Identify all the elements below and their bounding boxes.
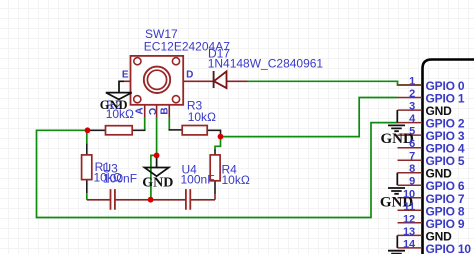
svg-text:1N4148W_C2840961: 1N4148W_C2840961 (208, 57, 324, 71)
encoder corner hole top-right (172, 58, 179, 65)
wire encoder pin B drop (168, 117, 170, 130)
svg-text:GND: GND (142, 176, 173, 191)
svg-text:13: 13 (403, 226, 415, 238)
svg-text:D: D (186, 69, 193, 80)
wire pin B to R3 left pin (169, 129, 183, 131)
encoder pin D stub to diode (183, 80, 213, 82)
encoder shaft inner circle (147, 70, 166, 89)
wire encoder pin A drop (144, 117, 146, 130)
wire junction jog down to R4 (215, 137, 221, 151)
wire R3/R4 junction to connector pin 2 (221, 98, 398, 137)
resistor R1 bottom pin wire (86, 193, 88, 200)
capacitor U4 plates (186, 189, 190, 210)
svg-text:C: C (146, 108, 157, 115)
earth ground symbol at pin 4 (388, 125, 405, 131)
ground bracket pins 3-4 (396, 110, 398, 123)
connector pin lines 1-14 (398, 85, 423, 248)
svg-text:3: 3 (409, 101, 415, 113)
encoder pin E stub (124, 80, 131, 82)
junction dot R2/R1 node (85, 127, 91, 133)
svg-text:E: E (122, 69, 129, 80)
diode anode lead (227, 80, 248, 82)
svg-text:GND: GND (100, 98, 128, 112)
resistor R3 body (182, 126, 207, 135)
svg-text:GPIO 10: GPIO 10 (426, 242, 472, 254)
diode D17 symbol (213, 71, 215, 88)
resistor R1 top pin wire (86, 130, 88, 143)
resistor R1 bottom pin stub (86, 180, 88, 194)
earth ground symbol at pin 9 (388, 188, 405, 194)
svg-text:11: 11 (404, 201, 416, 213)
svg-text:10: 10 (403, 188, 415, 200)
wire R2 right pin to pin A node (132, 129, 145, 131)
connector body (423, 60, 474, 254)
R4 bottom pin stub (214, 181, 216, 194)
svg-text:14: 14 (403, 238, 416, 250)
svg-text:4: 4 (409, 113, 416, 125)
resistor R1 body (82, 155, 92, 180)
junction dot pin C / GND (154, 153, 160, 159)
encoder corner hole top-left (134, 58, 141, 65)
svg-text:10kΩ: 10kΩ (222, 173, 250, 187)
svg-text:5: 5 (409, 126, 415, 138)
capacitor row leads R1-U3-GND-U4-R4 (87, 194, 215, 200)
R4 top pin stub (214, 150, 216, 155)
resistor R4 body (210, 155, 220, 181)
svg-text:1: 1 (409, 76, 415, 88)
svg-text:6: 6 (409, 138, 415, 150)
resistor R2 body (106, 126, 133, 135)
wire diode anode to connector pin 1 (248, 81, 423, 85)
svg-text:9: 9 (409, 176, 415, 188)
encoder corner hole bottom-left (134, 96, 141, 103)
wire encoder pin C drop to GND junction (156, 117, 158, 155)
rotary encoder SW17 body (131, 56, 184, 105)
wire R3 right pin to junction (207, 130, 220, 134)
encoder corner hole bottom-right (172, 96, 179, 103)
junction dot R3/R4 node (218, 134, 224, 140)
wire GND jog down to capacitor row (151, 155, 157, 199)
encoder shaft outer circle (144, 67, 170, 93)
earth ground symbol at pin 14 (388, 251, 405, 254)
svg-text:8: 8 (409, 163, 415, 175)
junction dot capacitor row GND (148, 197, 154, 203)
ground symbol center (encoder pin C) (144, 155, 168, 176)
svg-text:10kΩ: 10kΩ (188, 110, 216, 124)
ground bracket pins 8-9 (396, 173, 398, 186)
svg-text:100nF: 100nF (181, 173, 215, 187)
svg-text:100nF: 100nF (103, 172, 137, 186)
svg-text:A: A (135, 107, 146, 114)
wire net to GPIO2: encoder A bus (left vertical, bottom bus, riser to pin 4) (37, 123, 398, 218)
ground symbol left (encoder pin E) (106, 81, 132, 99)
svg-text:2: 2 (409, 88, 415, 100)
capacitor U3 plates (111, 189, 115, 210)
ground bracket pins 13-14 (396, 235, 398, 248)
resistor R1 top pin stub (86, 143, 88, 155)
svg-text:B: B (160, 107, 171, 114)
encoder bottom pin stubs A C B (145, 105, 170, 118)
wire junction to R2 left pin (88, 129, 106, 131)
svg-text:12: 12 (403, 213, 415, 225)
svg-text:7: 7 (409, 151, 415, 163)
